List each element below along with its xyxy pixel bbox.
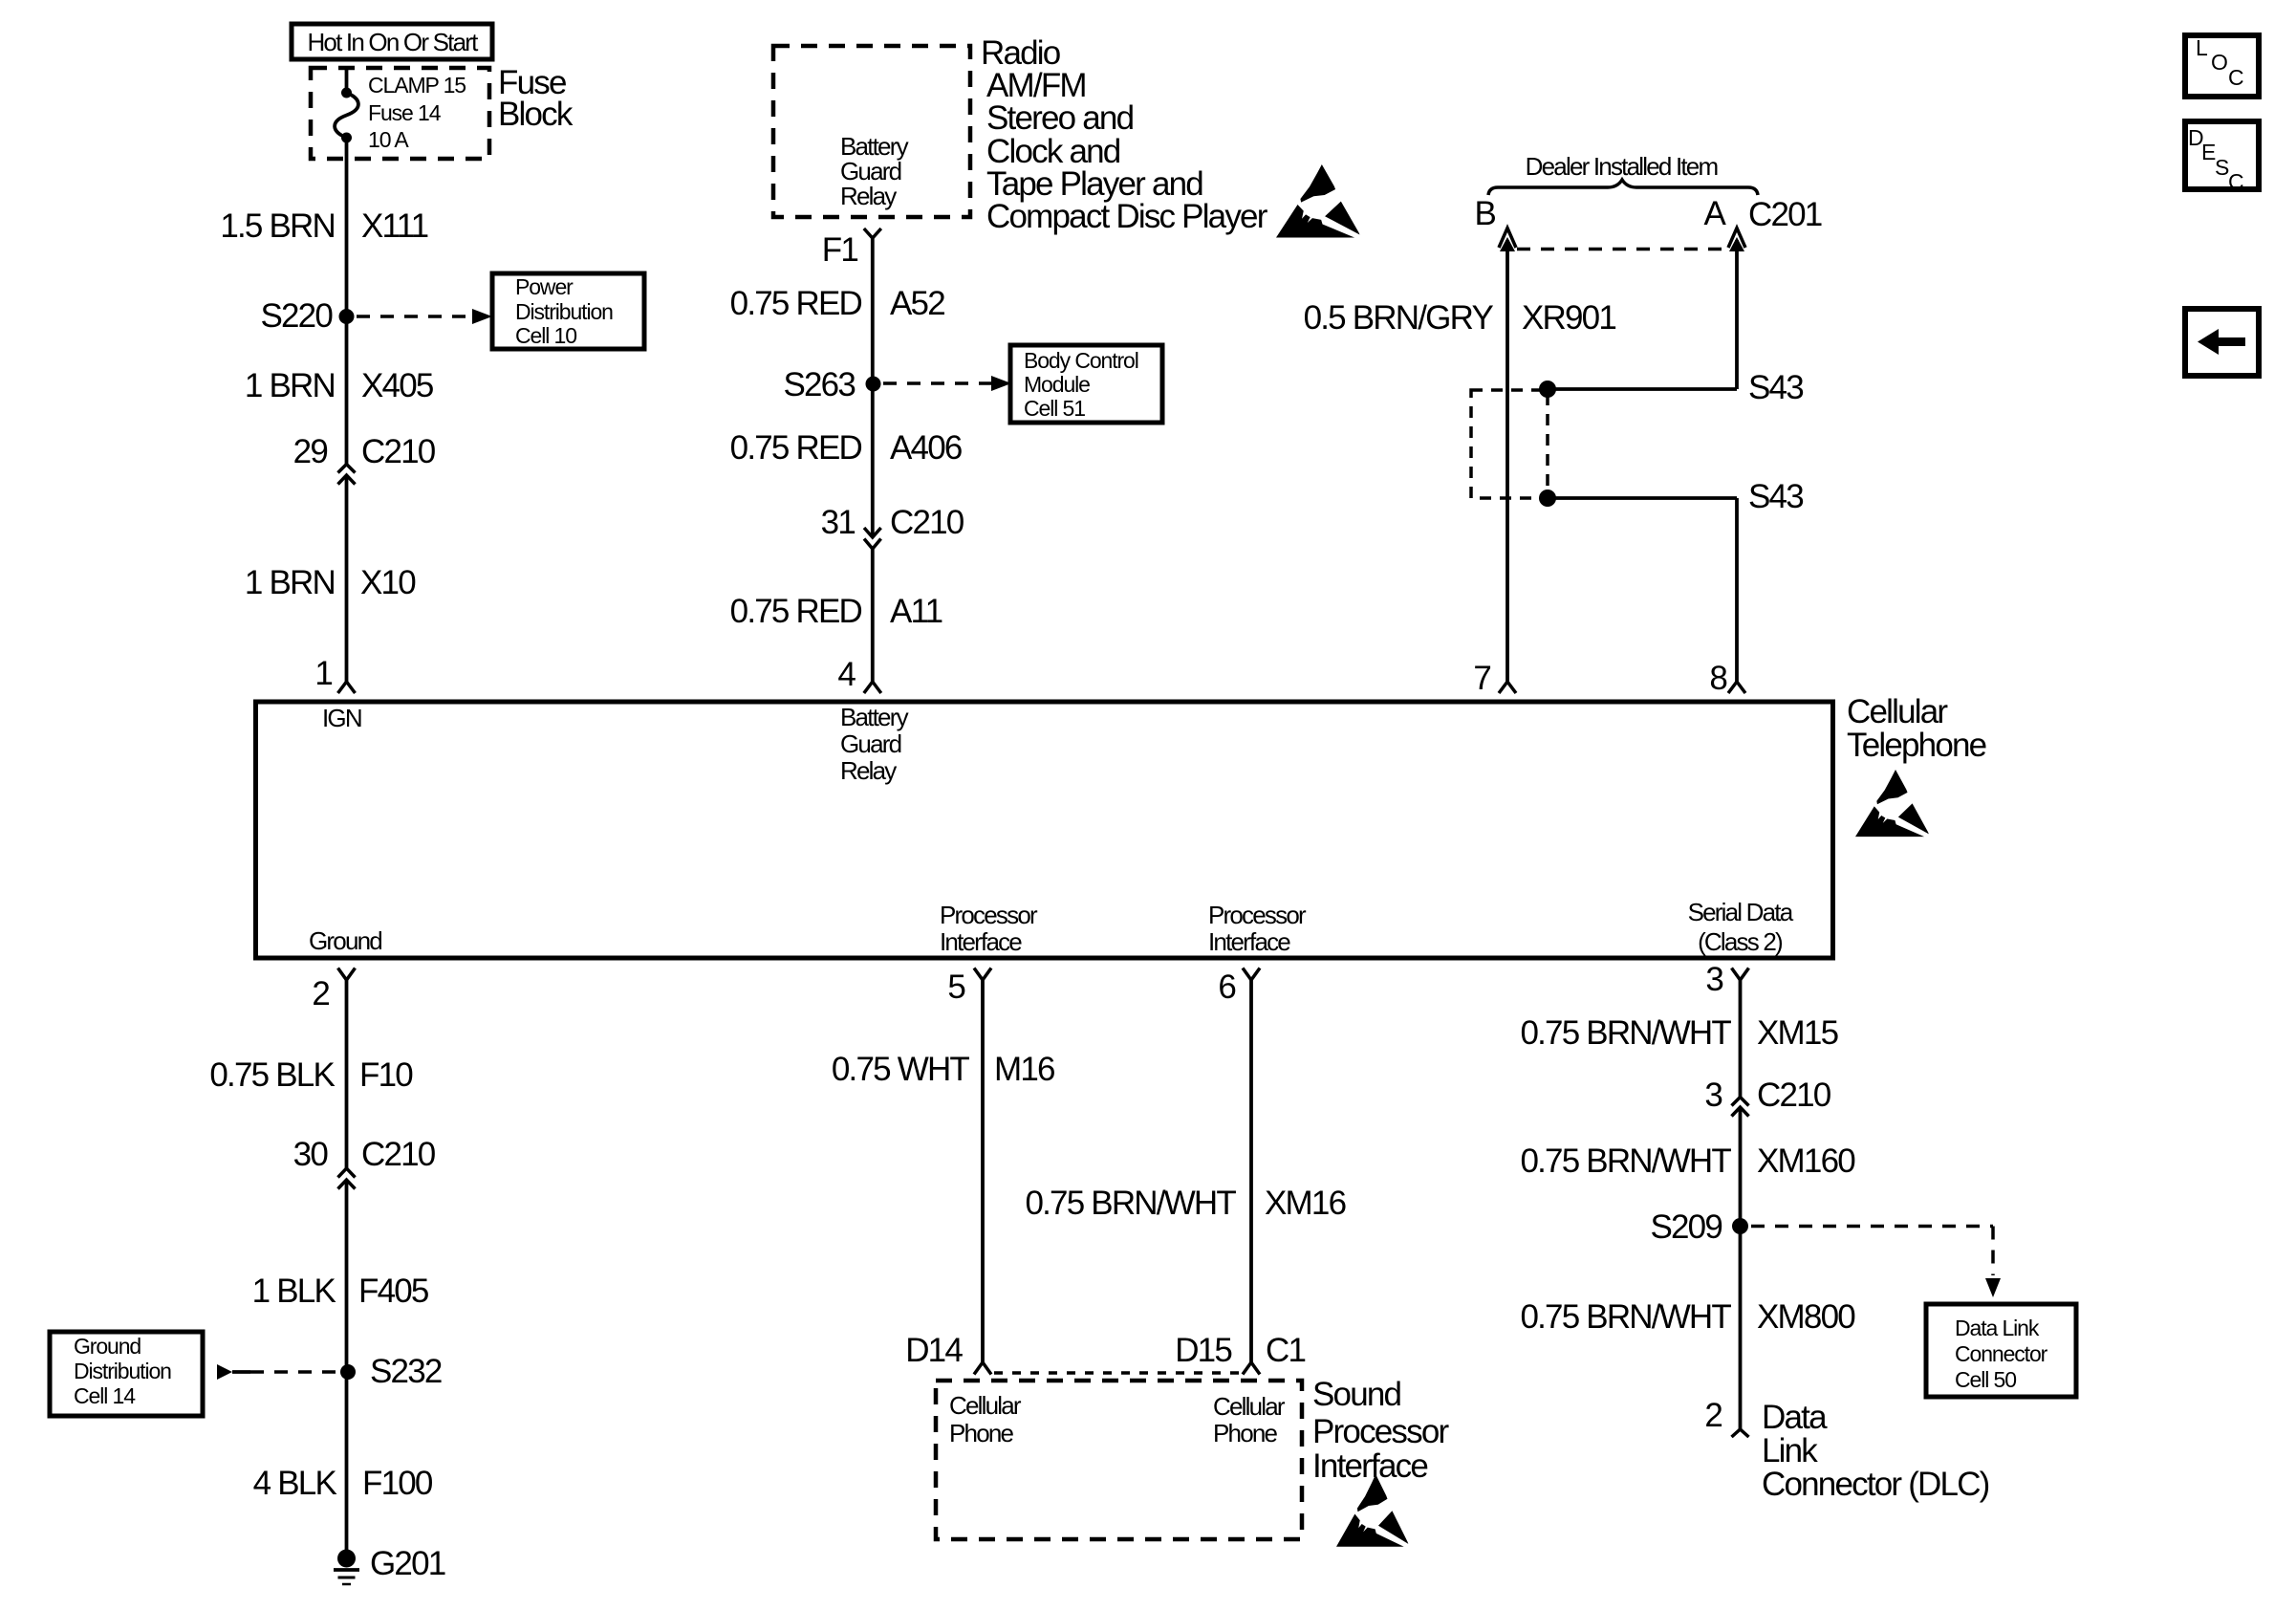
label 1 BRN X10 [245,564,416,601]
svg-text:XM15: XM15 [1757,1014,1838,1052]
component box Cellular Telephone [256,702,1833,958]
svg-text:Link: Link [1762,1432,1818,1469]
svg-text:6: 6 [1218,968,1235,1006]
wire F10 segment [345,980,349,1168]
svg-text:Module: Module [1024,372,1090,397]
svg-text:Ground: Ground [74,1334,141,1359]
fuse block dashed box [311,68,489,159]
svg-text:IGN: IGN [322,704,361,732]
svg-text:X10: X10 [360,564,416,601]
label 0.75 BRN/WHT XM16 [1025,1185,1345,1222]
svg-text:XM16: XM16 [1265,1185,1346,1222]
label 0.75 BRN/WHT XM15 [1520,1014,1837,1052]
node S220 [260,297,354,335]
svg-text:2: 2 [1704,1397,1722,1434]
svg-text:3: 3 [1705,961,1722,998]
label Radio AM/FM Stereo and Clock and Tape Player and Compact Disc Player [981,34,1268,235]
svg-text:0.75 RED: 0.75 RED [730,429,862,467]
pin label Processor Interface (pin 5) [940,901,1038,956]
svg-text:Hot In On Or Start: Hot In On Or Start [307,28,479,56]
svg-text:S: S [2215,155,2229,180]
svg-text:Cell 14: Cell 14 [74,1383,136,1408]
svg-text:7: 7 [1473,660,1490,697]
svg-text:C: C [2228,169,2243,194]
wire: stub into fuse [345,68,349,90]
pin 3 (serial data) [1705,961,1748,998]
svg-text:A: A [1703,195,1726,232]
wire from splice down to pin 8 [1735,498,1739,682]
brace (dealer installed item) [1488,180,1758,195]
svg-text:Telephone: Telephone [1847,727,1986,764]
connector C210 pin 31 [821,504,964,549]
svg-text:8: 8 [1709,660,1726,697]
svg-text:10 A: 10 A [368,127,409,152]
label Fuse Block [498,64,574,133]
svg-text:Dealer Installed Item: Dealer Installed Item [1526,152,1718,181]
svg-text:F100: F100 [362,1465,433,1502]
pin 8 [1709,660,1745,697]
pin 1 [314,655,355,693]
label 0.75 RED A11 [730,593,942,630]
pin D15 C1 [1175,1332,1305,1375]
ESD symbol (sound processor) [1336,1474,1408,1547]
wire M16 segment [981,980,985,1362]
svg-text:Fuse 14: Fuse 14 [368,100,442,125]
svg-text:Data: Data [1762,1399,1828,1436]
DESC button [2185,121,2259,194]
svg-text:C: C [2228,65,2243,90]
svg-text:CLAMP 15: CLAMP 15 [368,73,466,98]
svg-text:XM800: XM800 [1757,1298,1855,1336]
label 1 BRN X405 [245,367,433,404]
svg-text:Body Control: Body Control [1024,348,1138,373]
splice S43 (lower) [1539,478,1803,515]
dashed wire between B and A [1517,248,1727,251]
ESD symbol (cellular telephone) [1855,770,1929,837]
pin 2 Data Link Connector (DLC) [1704,1397,1988,1503]
label 4 BLK F100 [253,1465,433,1502]
svg-text:G201: G201 [370,1545,445,1582]
wire XM16 segment [1249,980,1253,1362]
svg-text:Interface: Interface [1208,927,1290,956]
svg-text:F405: F405 [358,1273,428,1310]
fuse CLAMP 15 Fuse 14 10 A [335,73,466,152]
svg-text:Processor: Processor [1208,901,1307,929]
svg-text:Sound: Sound [1312,1376,1401,1413]
wire XR901 (pin 7 vertical) [1505,240,1509,682]
svg-text:Data Link: Data Link [1955,1316,2040,1340]
svg-text:C201: C201 [1748,196,1822,233]
pin 7 [1473,660,1516,697]
svg-text:C1: C1 [1266,1332,1305,1369]
label box: Hot In On Or Start [292,24,492,59]
pin 2 (ground) [312,968,355,1013]
svg-text:Block: Block [498,96,574,133]
svg-text:Serial Data: Serial Data [1688,898,1794,926]
svg-text:C210: C210 [361,433,436,470]
back arrow button [2185,309,2259,376]
svg-text:A11: A11 [890,593,942,630]
svg-text:29: 29 [293,433,328,470]
label Battery Guard Relay (dashed box) [840,132,909,210]
svg-text:Relay: Relay [840,756,897,785]
svg-text:S220: S220 [260,297,333,335]
ground G201 [334,1545,445,1584]
svg-text:S43: S43 [1748,369,1803,406]
node S263 [783,366,880,403]
svg-text:O: O [2211,50,2227,75]
label 0.75 BRN/WHT XM800 [1520,1298,1855,1336]
svg-text:X405: X405 [361,367,433,404]
pin F1 [822,228,881,269]
svg-text:E: E [2201,140,2216,164]
svg-text:X111: X111 [361,207,428,245]
svg-text:1.5 BRN: 1.5 BRN [220,207,335,245]
wire XM160 segment [1739,1107,1743,1429]
svg-text:0.75 BRN/WHT: 0.75 BRN/WHT [1520,1142,1731,1180]
wire F405 segment [345,1180,349,1550]
connector C210 pin 29 [293,433,436,485]
svg-text:Processor: Processor [1312,1413,1449,1450]
svg-text:0.75 BRN/WHT: 0.75 BRN/WHT [1520,1014,1731,1052]
svg-text:L: L [2196,35,2208,60]
svg-text:Interface: Interface [1312,1447,1427,1485]
svg-text:5: 5 [947,968,964,1006]
wire XM15 segment [1739,980,1743,1098]
svg-text:1 BLK: 1 BLK [252,1273,336,1310]
svg-text:30: 30 [293,1136,329,1173]
svg-text:Battery: Battery [840,703,909,731]
svg-text:Stereo and: Stereo and [986,99,1134,137]
dotted connector line D14-D15 [994,1371,1245,1375]
svg-text:0.5 BRN/GRY: 0.5 BRN/GRY [1304,299,1494,337]
svg-text:(Class 2): (Class 2) [1698,927,1783,956]
svg-text:XM160: XM160 [1757,1142,1855,1180]
pin label Processor Interface (pin 6) [1208,901,1307,956]
svg-text:1 BRN: 1 BRN [245,564,335,601]
dashed arrow Ground Distribution to S232 [217,1364,336,1380]
pin label Serial Data (Class 2) [1688,898,1794,956]
svg-text:Distribution: Distribution [74,1359,171,1383]
label 0.75 BRN/WHT XM160 [1520,1142,1855,1180]
svg-text:Phone: Phone [949,1419,1014,1447]
splice S43 (upper) [1539,369,1803,406]
pin 6 [1218,968,1260,1007]
pin 4 [837,656,880,693]
connector C210 pin 30 [293,1136,436,1189]
dashed box Sound Processor Interface [936,1381,1302,1539]
svg-text:Cellular: Cellular [949,1391,1022,1420]
svg-text:Interface: Interface [940,927,1022,956]
svg-text:F10: F10 [359,1056,413,1094]
svg-text:S209: S209 [1650,1208,1722,1246]
label 0.5 BRN/GRY XR901 [1304,299,1616,337]
svg-text:A406: A406 [890,429,962,467]
node S209 [1650,1208,1748,1246]
label 1.5 BRN X111 [220,207,427,245]
svg-text:A52: A52 [890,285,944,322]
svg-text:Connector: Connector [1955,1341,2048,1366]
svg-text:Compact Disc Player: Compact Disc Player [986,198,1268,235]
svg-text:B: B [1474,195,1495,232]
svg-text:0.75 RED: 0.75 RED [730,593,862,630]
wire X111 segment [345,138,349,464]
connector C210 pin 3 [1704,1077,1830,1117]
dashed arrow S220 to Power Distribution [357,309,492,324]
svg-text:3: 3 [1704,1077,1722,1114]
wire A52 segment [871,238,875,537]
svg-text:Cellular: Cellular [1213,1392,1286,1421]
ESD symbol (radio) [1276,164,1360,238]
svg-text:1: 1 [314,655,332,692]
svg-text:S263: S263 [783,366,855,403]
callout box Ground Distribution Cell 14 [50,1332,203,1416]
LOC button [2185,35,2259,97]
svg-text:0.75 BRN/WHT: 0.75 BRN/WHT [1520,1298,1731,1336]
svg-text:0.75 BRN/WHT: 0.75 BRN/WHT [1025,1185,1236,1222]
label 0.75 WHT M16 [832,1051,1054,1088]
dashed in-line connector box [1471,390,1548,498]
svg-text:Cell 51: Cell 51 [1024,396,1085,421]
svg-text:0.75 WHT: 0.75 WHT [832,1051,970,1088]
connector A C201 (arrow up) [1703,195,1821,251]
wire A11 segment [871,549,875,682]
svg-text:Distribution: Distribution [515,299,613,324]
svg-text:Cellular: Cellular [1847,693,1948,730]
label 0.75 BLK F10 [209,1056,413,1094]
svg-text:M16: M16 [994,1051,1054,1088]
svg-text:XR901: XR901 [1522,299,1615,337]
svg-text:S232: S232 [370,1353,442,1390]
svg-text:31: 31 [821,504,856,541]
connector B C201 (arrow up) [1474,195,1516,251]
svg-text:4: 4 [837,656,856,693]
svg-text:Relay: Relay [840,182,897,210]
wire from A down to splice S43 [1735,240,1739,389]
svg-text:0.75 RED: 0.75 RED [730,285,862,322]
svg-text:C210: C210 [1757,1077,1831,1114]
callout box Data Link Connector Cell 50 [1926,1304,2076,1397]
svg-text:S43: S43 [1748,478,1803,515]
pin D14 [905,1332,991,1375]
svg-text:C210: C210 [890,504,964,541]
svg-text:Connector (DLC): Connector (DLC) [1762,1466,1989,1503]
svg-text:Processor: Processor [940,901,1038,929]
callout box Power Distribution Cell 10 [492,273,644,349]
label 0.75 RED A52 [730,285,945,322]
svg-text:4 BLK: 4 BLK [253,1465,337,1502]
svg-text:0.75 BLK: 0.75 BLK [209,1056,335,1094]
svg-text:2: 2 [312,975,329,1012]
pin 5 [947,968,991,1007]
label Sound Processor Interface [1312,1376,1449,1485]
node S232 [340,1353,442,1390]
label 1 BLK F405 [252,1273,428,1310]
svg-text:Ground: Ground [309,926,381,955]
svg-text:Guard: Guard [840,729,901,758]
wire X10 segment [345,475,349,682]
callout box Body Control Module Cell 51 [1010,345,1162,423]
dashed arrow S209 to Data Link Connector [1751,1227,2001,1298]
svg-text:Power: Power [515,274,574,299]
svg-text:Phone: Phone [1213,1419,1278,1447]
label 0.75 RED A406 [730,429,962,467]
svg-text:C210: C210 [361,1136,436,1173]
dashed arrow S263 to Body Control Module [883,376,1011,391]
pin label Battery Guard Relay (inside box) [840,703,909,785]
svg-text:D14: D14 [905,1332,963,1369]
svg-text:F1: F1 [822,231,858,269]
label Cellular Phone (left) [949,1391,1022,1447]
svg-text:D15: D15 [1175,1332,1231,1369]
dashed box Battery Guard Relay (radio side) [773,46,970,217]
label Cellular Phone (right) [1213,1392,1286,1447]
svg-text:Cell 10: Cell 10 [515,323,576,348]
svg-text:Cell 50: Cell 50 [1955,1367,2016,1392]
label Cellular Telephone [1847,693,1986,764]
svg-text:1 BRN: 1 BRN [245,367,335,404]
